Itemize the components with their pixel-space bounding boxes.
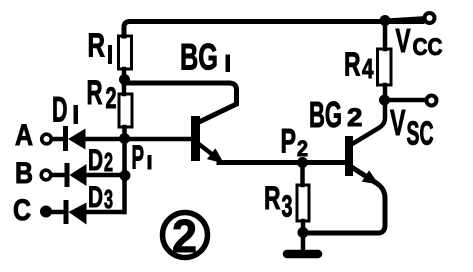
wire R1 bottom <box>122 69 127 80</box>
svg-text:V: V <box>390 102 406 143</box>
resistor R1 <box>119 36 132 69</box>
node top rail / R4 <box>380 15 391 26</box>
svg-text:2: 2 <box>347 104 362 132</box>
wire BG1 emitter to BG2 base <box>219 160 345 165</box>
wire top supply rail <box>124 22 422 37</box>
svg-text:2: 2 <box>172 210 197 262</box>
node R3 bottom <box>298 227 309 238</box>
resistor R3 <box>300 166 305 185</box>
diode D2 <box>65 163 70 187</box>
svg-text:3: 3 <box>104 184 113 214</box>
svg-text:2: 2 <box>106 82 117 115</box>
diode D1 <box>63 126 68 151</box>
ground stub <box>301 237 306 250</box>
wire D3 to P1 <box>86 210 124 215</box>
svg-text:2: 2 <box>297 136 308 161</box>
svg-text:R: R <box>87 74 103 112</box>
svg-text:SC: SC <box>407 115 434 152</box>
terminal C <box>40 206 52 218</box>
resistor R2 <box>122 85 127 94</box>
wire C to D3 <box>51 210 63 215</box>
transistor BG1 <box>191 116 200 161</box>
diode D3 <box>64 200 69 224</box>
svg-text:R: R <box>344 46 361 83</box>
wire node to Vsc terminal <box>390 98 424 103</box>
svg-text:3: 3 <box>282 189 293 224</box>
wire BG2 emitter return <box>306 168 385 233</box>
terminal A <box>42 134 52 144</box>
svg-text:BG: BG <box>180 37 218 78</box>
wire D1 to BG1 base <box>85 137 191 142</box>
wire junction to BG1 collector <box>124 83 237 121</box>
node Vsc <box>379 95 390 106</box>
svg-text:P: P <box>132 139 145 176</box>
node P2 <box>297 157 308 168</box>
node P1 on A line <box>119 133 130 144</box>
terminal Vcc <box>425 13 435 23</box>
wire rail to Vcc terminal <box>390 19 422 21</box>
node P1 on B line <box>120 170 131 181</box>
ground <box>287 250 318 259</box>
svg-text:2: 2 <box>104 147 113 177</box>
wire A to D1 <box>52 137 63 142</box>
svg-text:4: 4 <box>362 53 374 84</box>
node R1/R2 junction <box>119 74 130 85</box>
wire P1 vertical <box>122 127 127 212</box>
terminal B <box>41 170 51 180</box>
svg-text:D: D <box>88 144 103 177</box>
svg-text:A: A <box>15 119 33 152</box>
svg-text:V: V <box>396 22 411 59</box>
figure number 2 <box>163 213 208 258</box>
svg-text:B: B <box>15 157 33 190</box>
svg-text:R: R <box>264 180 281 216</box>
svg-text:D: D <box>52 91 68 130</box>
svg-text:C: C <box>13 194 31 227</box>
wire B to D2 <box>52 173 64 178</box>
svg-text:BG: BG <box>309 94 342 135</box>
svg-text:D: D <box>88 181 103 214</box>
resistor R4 <box>383 22 388 49</box>
svg-text:P: P <box>281 122 297 160</box>
wire D2 to P1 <box>86 173 122 178</box>
terminal Vsc <box>427 96 437 106</box>
svg-text:CC: CC <box>413 34 443 61</box>
transistor BG2 <box>345 136 353 176</box>
svg-text:R: R <box>88 27 106 64</box>
